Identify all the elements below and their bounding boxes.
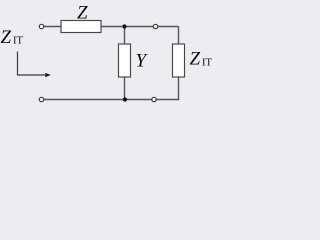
- wire right vertical upper: [178, 27, 180, 45]
- terminal circle bottom-left: [39, 97, 43, 101]
- wire bottom: [44, 99, 180, 101]
- wire right vertical lower: [178, 77, 180, 100]
- node dot top: [122, 24, 126, 28]
- svg-text:Z: Z: [77, 3, 88, 24]
- wire top (left terminal to Z box): [44, 26, 62, 28]
- svg-text:IT: IT: [13, 36, 23, 47]
- svg-text:Z: Z: [190, 49, 201, 70]
- terminal circle top-left: [39, 24, 43, 28]
- wire shunt Y lower: [124, 77, 126, 100]
- impedance box Z: [61, 21, 101, 33]
- arrow Z_IT looking-in: [18, 52, 46, 76]
- load box Z_IT: [173, 44, 185, 77]
- svg-text:Z: Z: [1, 27, 12, 48]
- node dot bottom: [123, 97, 127, 101]
- wire top (Z box to right corner): [101, 26, 179, 28]
- svg-text:Y: Y: [136, 51, 149, 72]
- wire shunt Y upper: [124, 27, 126, 45]
- admittance box Y: [119, 44, 131, 77]
- terminal circle bottom-right: [152, 97, 156, 101]
- terminal circle top-right: [153, 24, 157, 28]
- svg-text:IT: IT: [202, 58, 212, 69]
